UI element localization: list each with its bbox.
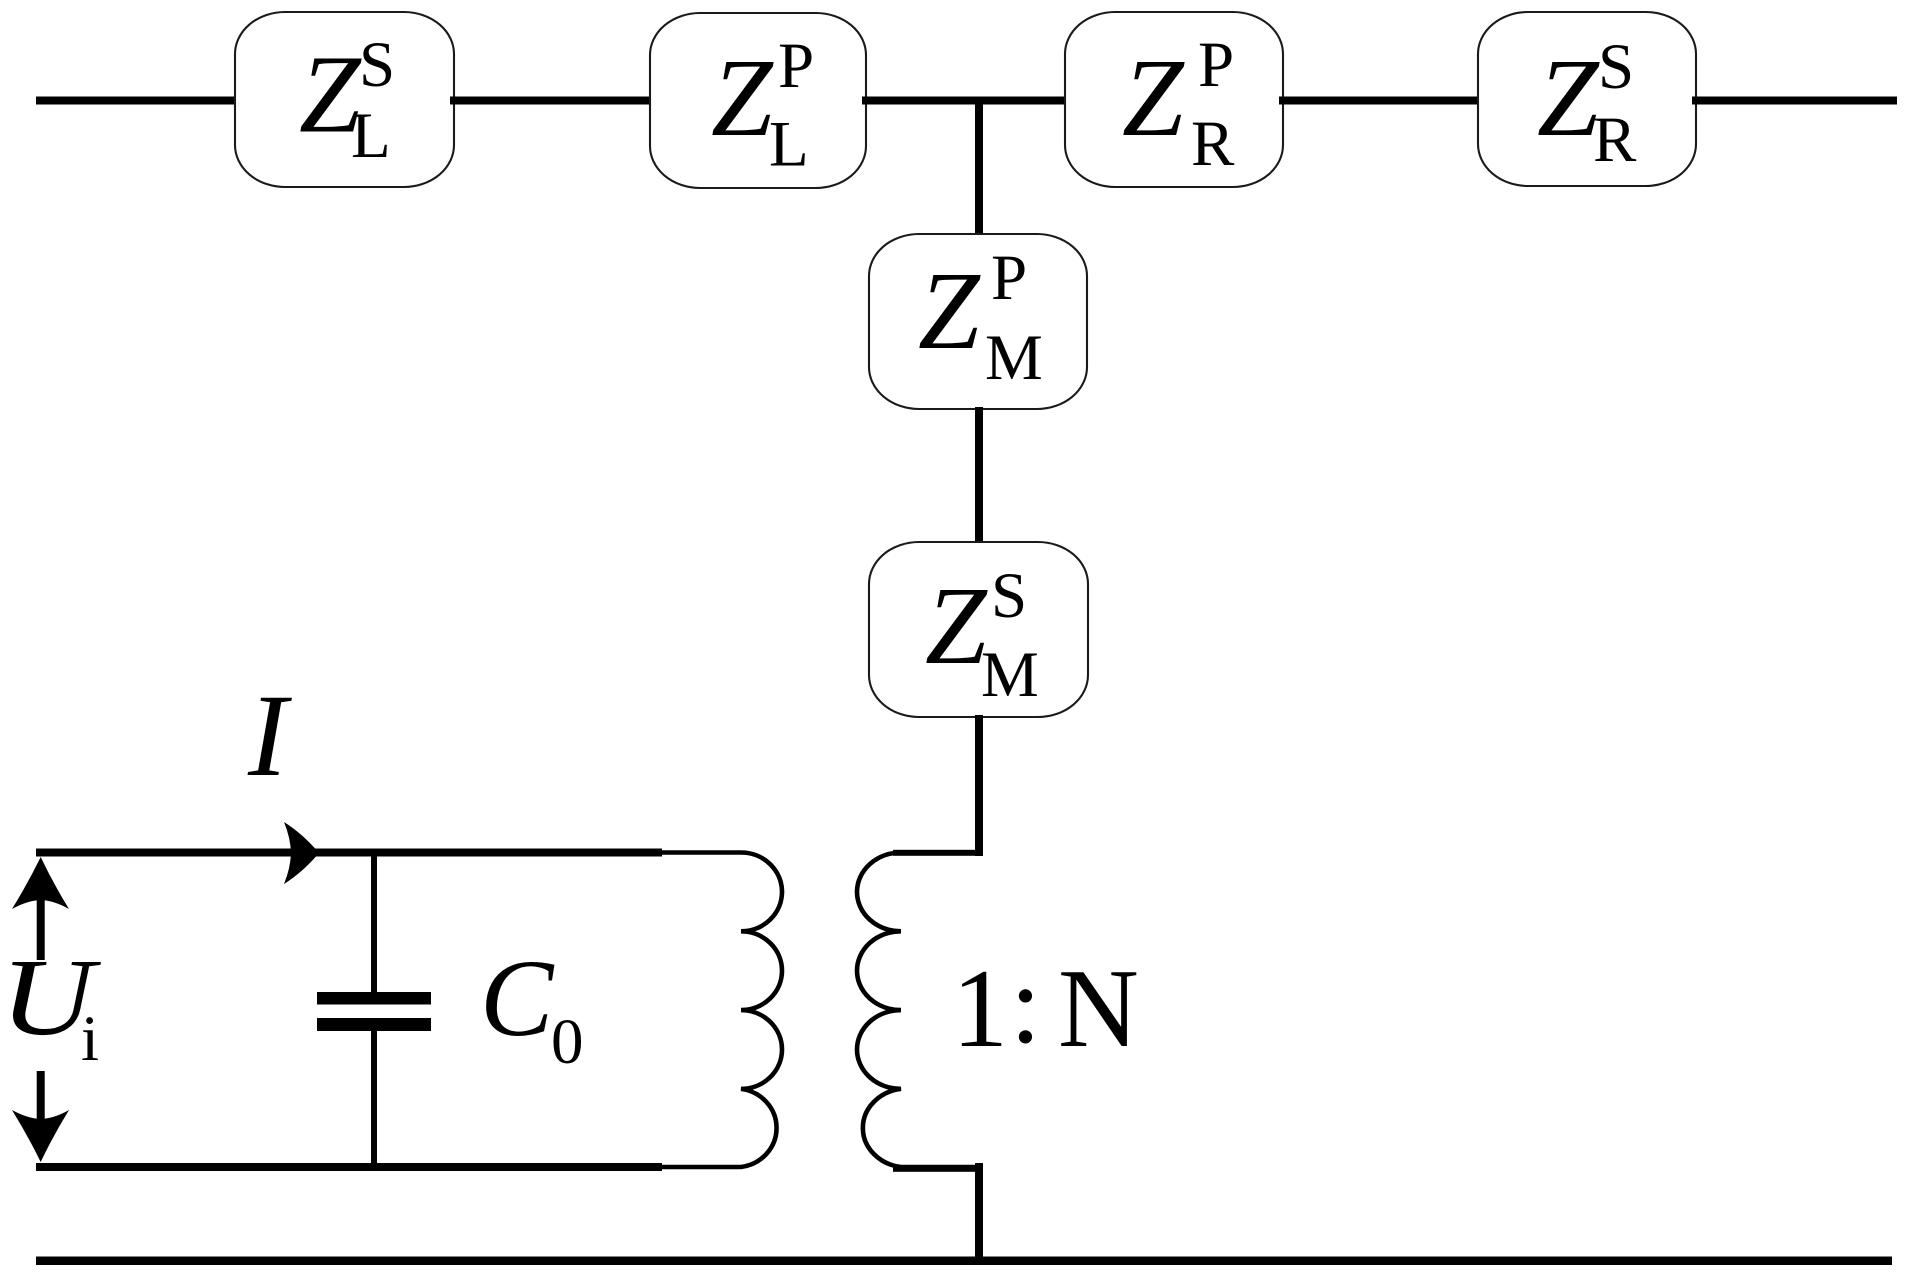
wire secondary bottom vertical <box>975 1163 983 1265</box>
svg-text:Z: Z <box>1122 37 1185 160</box>
wire top rail segment 3 <box>862 97 1069 105</box>
wire source top <box>36 849 662 857</box>
svg-text:Z: Z <box>925 565 988 688</box>
wire top rail segment 4 <box>1279 97 1482 105</box>
transformer primary coil <box>655 853 782 1168</box>
svg-text:P: P <box>991 242 1027 314</box>
svg-text:N: N <box>1058 947 1139 1071</box>
svg-text::: : <box>1010 943 1041 1067</box>
svg-text:R: R <box>1191 108 1235 180</box>
svg-text:Z: Z <box>711 37 774 160</box>
wire top rail segment 5 <box>1692 97 1897 105</box>
impedance box ZLS <box>235 12 454 187</box>
svg-text:Z: Z <box>918 250 981 373</box>
impedance box ZMS <box>869 542 1088 717</box>
capacitor C0 wire bottom <box>371 1031 377 1167</box>
wire top rail segment 1 <box>36 97 240 105</box>
wire vertical ZMP to ZMS <box>975 407 983 544</box>
svg-text:M: M <box>985 322 1043 394</box>
impedance box ZLP <box>650 13 866 188</box>
svg-text:R: R <box>1593 104 1637 176</box>
svg-text:1: 1 <box>952 947 1008 1071</box>
impedance box ZRS <box>1478 12 1696 186</box>
current arrowhead <box>284 822 319 884</box>
wire source bottom <box>36 1163 662 1171</box>
wire vertical ZMS to transformer secondary <box>975 715 983 856</box>
svg-text:P: P <box>1198 29 1234 101</box>
svg-text:i: i <box>81 1003 99 1075</box>
svg-text:L: L <box>351 100 391 172</box>
voltage arrow up <box>12 857 69 909</box>
svg-text:P: P <box>778 30 814 102</box>
capacitor C0 plate top <box>317 992 431 1005</box>
capacitor C0 plate bottom <box>317 1018 431 1031</box>
impedance box ZRP <box>1065 12 1283 187</box>
wire secondary top lead <box>893 850 979 856</box>
wire secondary bottom lead <box>893 1165 981 1172</box>
svg-text:Z: Z <box>1537 37 1600 160</box>
svg-text:S: S <box>359 29 395 101</box>
svg-text:L: L <box>769 109 809 181</box>
capacitor C0 wire top <box>371 852 377 992</box>
voltage arrow down <box>37 1071 45 1133</box>
wire top rail segment 2 <box>450 97 654 105</box>
wire bottom rail <box>36 1257 1892 1266</box>
svg-text:M: M <box>981 639 1039 711</box>
svg-text:S: S <box>1598 31 1634 103</box>
svg-text:0: 0 <box>551 1006 584 1078</box>
impedance box ZMP <box>869 234 1087 409</box>
svg-text:S: S <box>991 560 1027 632</box>
transformer secondary coil <box>857 853 979 1168</box>
wire junction vertical to ZMP <box>975 100 983 236</box>
svg-text:I: I <box>247 670 292 801</box>
svg-text:C: C <box>480 937 555 1059</box>
